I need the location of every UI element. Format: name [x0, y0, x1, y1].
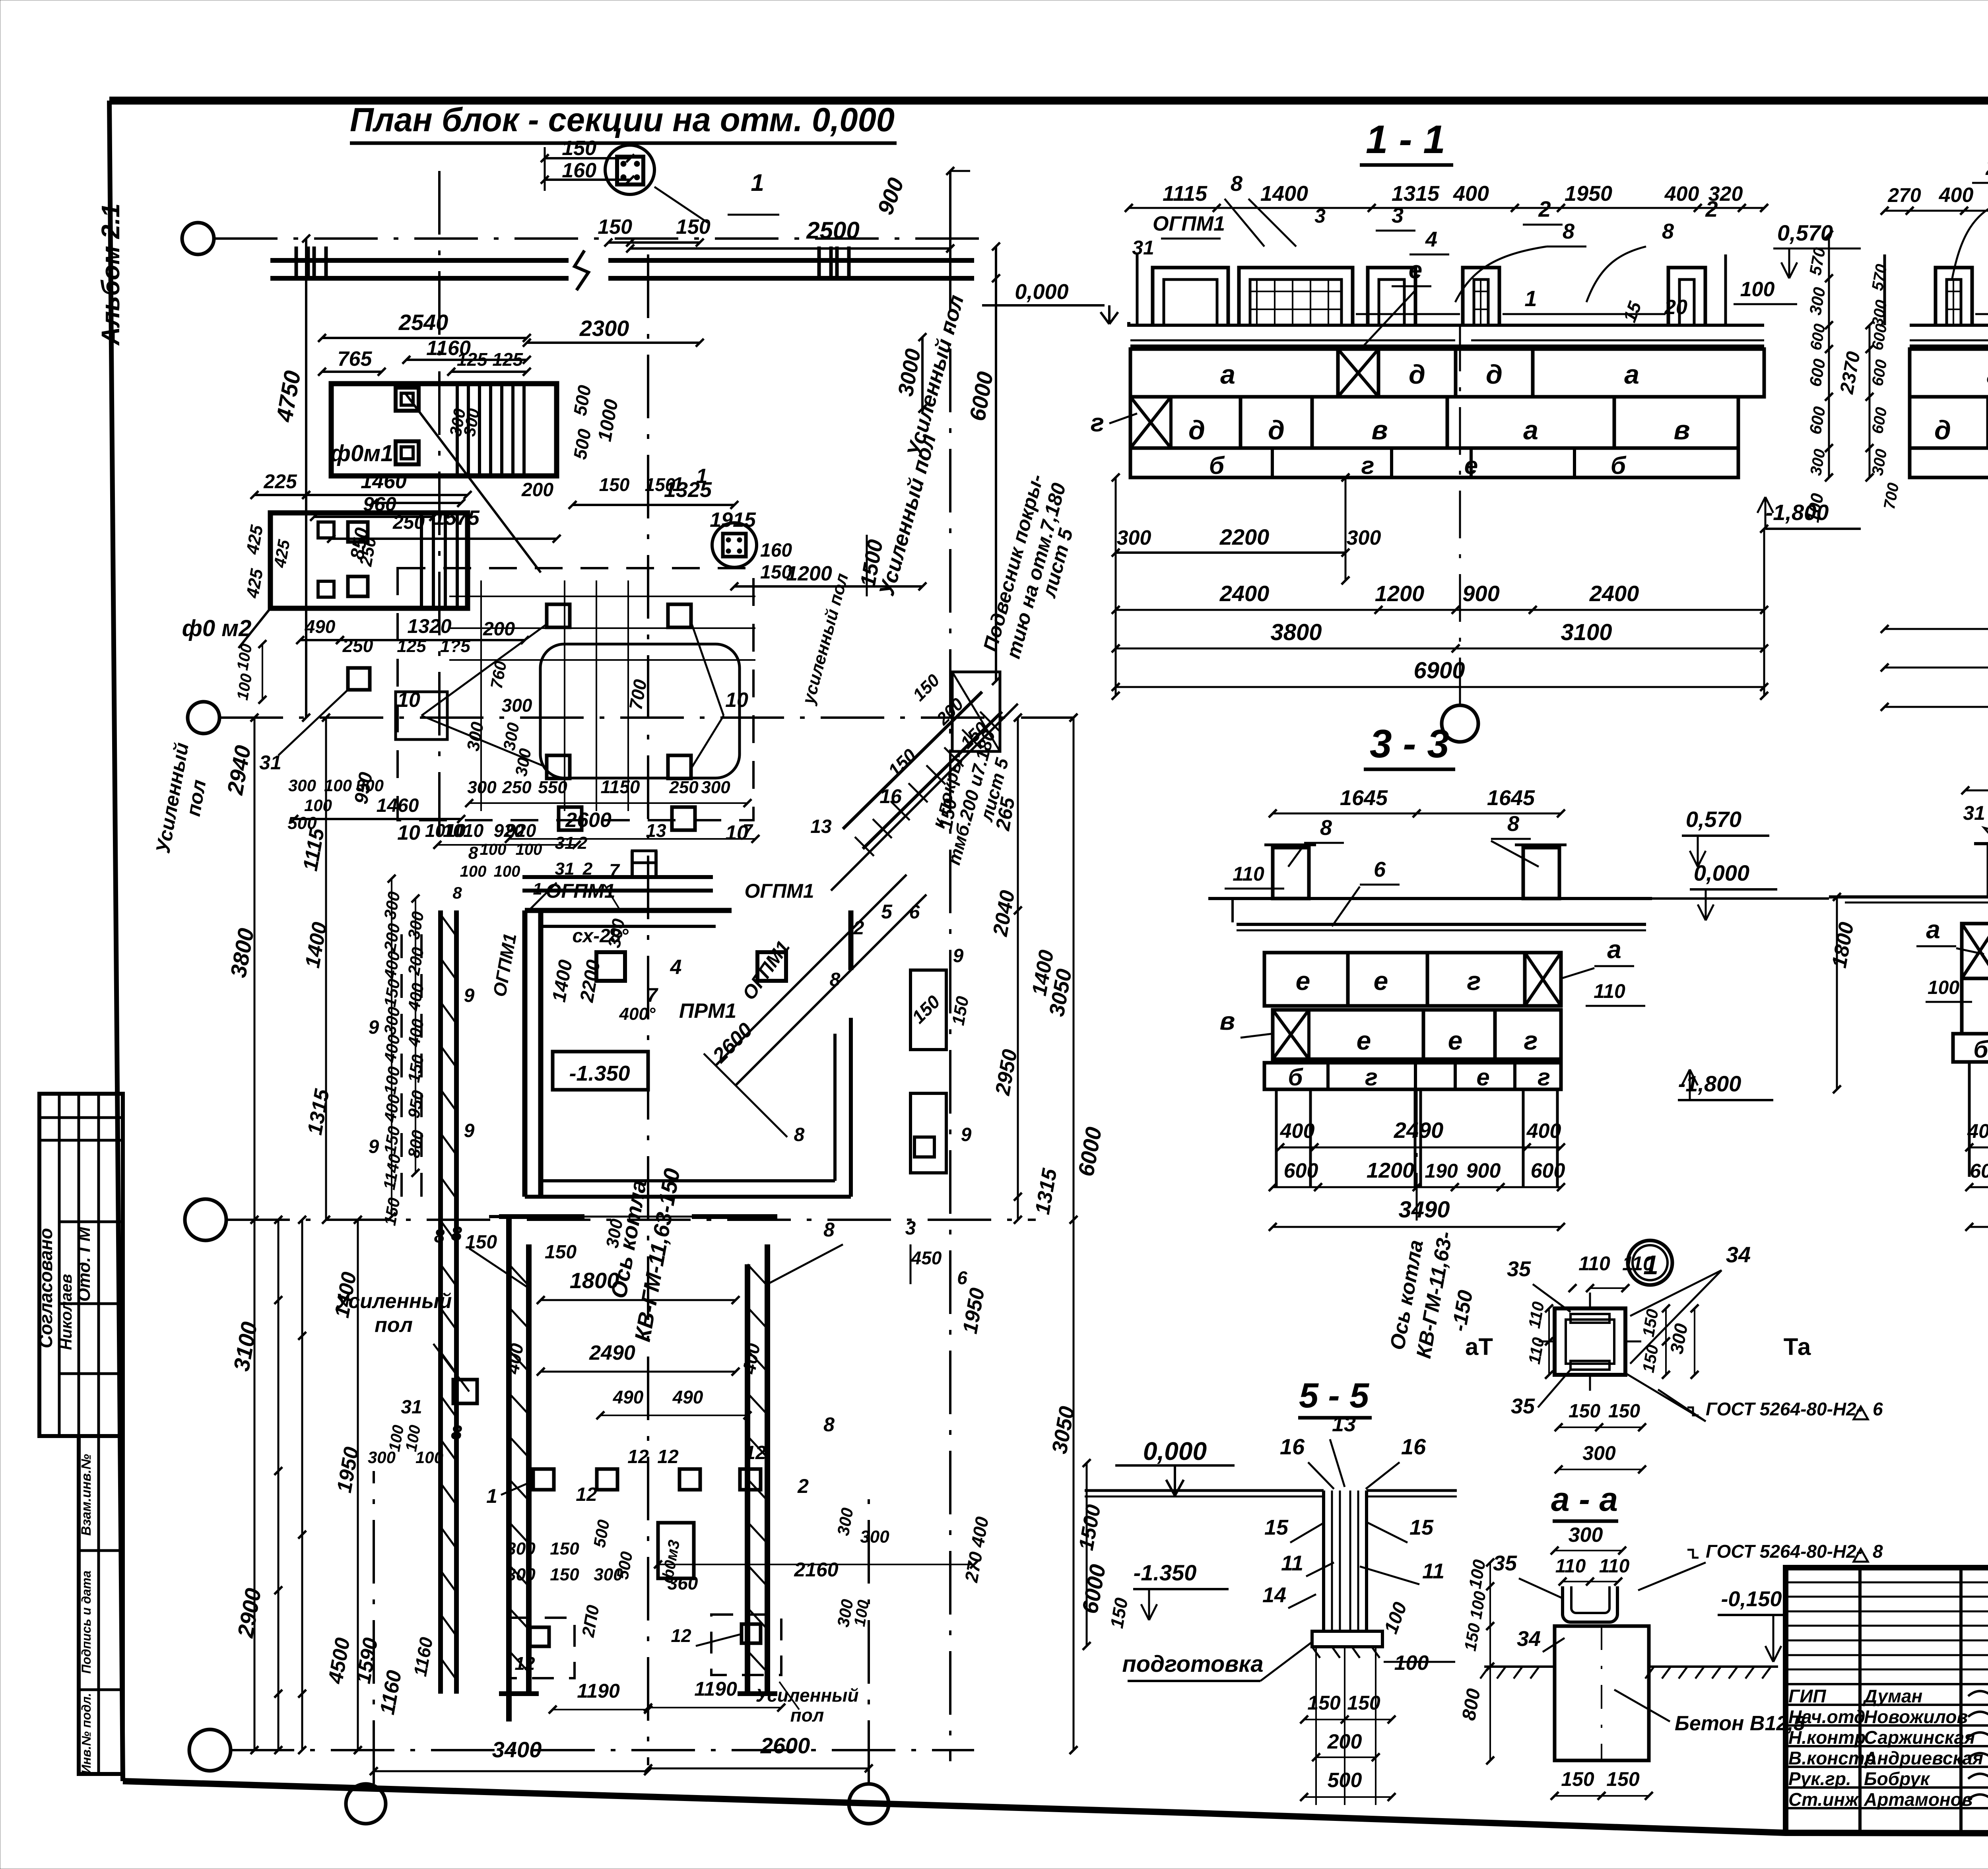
- svg-text:31: 31: [1132, 237, 1154, 259]
- svg-text:300: 300: [502, 695, 532, 716]
- svg-text:490: 490: [305, 616, 336, 637]
- svg-text:400: 400: [1526, 1120, 1561, 1143]
- svg-text:13: 13: [646, 820, 666, 841]
- svg-text:8: 8: [1507, 812, 1519, 836]
- svg-text:35: 35: [1507, 1257, 1531, 1281]
- svg-text:8: 8: [1662, 219, 1674, 243]
- svg-text:13: 13: [1332, 1412, 1356, 1436]
- svg-text:2400: 2400: [1219, 581, 1270, 606]
- svg-text:150: 150: [562, 137, 596, 160]
- svg-text:2: 2: [1538, 196, 1551, 221]
- svg-text:подготовка: подготовка: [1122, 1651, 1263, 1677]
- svg-text:300: 300: [1347, 526, 1381, 549]
- svg-text:д: д: [1188, 415, 1205, 445]
- svg-text:План блок - секции на отм. 0,0: План блок - секции на отм. 0,000: [350, 101, 895, 138]
- svg-text:15: 15: [1409, 1516, 1434, 1539]
- svg-text:б: б: [1209, 452, 1225, 479]
- svg-text:1320: 1320: [407, 615, 451, 637]
- svg-text:в: в: [1220, 1007, 1235, 1035]
- svg-text:е: е: [1464, 452, 1478, 479]
- 2-2 block rows: [1910, 349, 1988, 397]
- svg-text:Андриевская: Андриевская: [1864, 1748, 1983, 1768]
- svg-text:300: 300: [1117, 526, 1151, 549]
- bottom columns row: [533, 1469, 554, 1490]
- svg-text:12: 12: [627, 1446, 649, 1467]
- diagonal element: [843, 692, 982, 829]
- svg-text:1115: 1115: [1163, 182, 1208, 206]
- plan grid circles: [182, 223, 214, 254]
- svg-text:6: 6: [1374, 858, 1386, 881]
- svg-text:600: 600: [1970, 1160, 1988, 1182]
- svg-text:16: 16: [1280, 1434, 1305, 1459]
- svg-text:150: 150: [599, 474, 630, 495]
- svg-text:2400: 2400: [1589, 581, 1639, 606]
- svg-text:аТ: аТ: [1465, 1333, 1493, 1360]
- svg-text:-1.350: -1.350: [569, 1062, 630, 1085]
- svg-text:8: 8: [468, 843, 478, 863]
- svg-text:Н.контр: Н.контр: [1788, 1727, 1866, 1748]
- svg-text:100: 100: [494, 863, 520, 880]
- svg-text:а: а: [1624, 359, 1639, 390]
- svg-text:31: 31: [259, 751, 282, 774]
- svg-text:9: 9: [369, 1017, 379, 1038]
- svg-text:300: 300: [860, 1527, 889, 1547]
- svg-text:12: 12: [745, 1442, 766, 1463]
- svg-text:4: 4: [1425, 227, 1437, 251]
- column detail at title: [605, 145, 654, 194]
- svg-text:3 - 3: 3 - 3: [1370, 722, 1449, 766]
- svg-text:150: 150: [1569, 1401, 1600, 1422]
- svg-text:в: в: [1371, 415, 1388, 445]
- svg-text:900: 900: [1466, 1159, 1501, 1182]
- svg-text:3: 3: [905, 1218, 916, 1239]
- svg-text:0,000: 0,000: [1143, 1437, 1207, 1465]
- svg-text:34: 34: [1517, 1627, 1541, 1651]
- 4-4 dims below: [1968, 1062, 1971, 1177]
- svg-text:360: 360: [668, 1573, 698, 1593]
- svg-text:1: 1: [486, 1485, 497, 1507]
- svg-text:0,000: 0,000: [1694, 860, 1749, 885]
- svg-text:8: 8: [1563, 219, 1574, 243]
- svg-text:1: 1: [533, 879, 542, 898]
- 2-2 pier profile: [1910, 324, 1988, 327]
- svg-text:ОГПМ1: ОГПМ1: [745, 880, 814, 902]
- svg-text:а - а: а - а: [1551, 1481, 1618, 1518]
- svg-text:12: 12: [671, 1625, 691, 1646]
- svg-text:13: 13: [810, 816, 832, 837]
- svg-text:0,570: 0,570: [1686, 807, 1741, 832]
- svg-text:3490: 3490: [1398, 1197, 1450, 1223]
- svg-text:2300: 2300: [579, 316, 629, 341]
- svg-text:Артамонов: Артамонов: [1864, 1789, 1973, 1810]
- left vertical wall with hatch: [438, 910, 443, 1694]
- svg-text:31: 31: [401, 1397, 422, 1418]
- svg-text:1 - 1: 1 - 1: [1366, 117, 1445, 162]
- svg-text:110: 110: [1622, 1252, 1654, 1275]
- svg-text:Усиленный: Усиленный: [755, 1685, 858, 1706]
- svg-text:160: 160: [760, 540, 792, 561]
- svg-text:6: 6: [1873, 1399, 1883, 1419]
- svg-text:400: 400: [1664, 182, 1699, 206]
- svg-text:960: 960: [363, 493, 396, 515]
- svg-text:б: б: [1611, 452, 1627, 479]
- svg-text:д: д: [1409, 359, 1425, 390]
- svg-text:400°: 400°: [619, 1004, 655, 1024]
- svg-text:3100: 3100: [1561, 619, 1612, 645]
- top wall band: [270, 258, 569, 263]
- svg-text:190: 190: [1425, 1160, 1458, 1182]
- svg-text:300: 300: [1582, 1442, 1616, 1464]
- left stamp tables: [39, 1094, 123, 1436]
- svg-text:1645: 1645: [1487, 786, 1535, 810]
- svg-text:е: е: [1357, 1026, 1371, 1055]
- svg-text:3400: 3400: [492, 1737, 542, 1762]
- svg-text:б: б: [1288, 1064, 1303, 1091]
- drawing frame: [109, 97, 1988, 105]
- svg-text:1: 1: [672, 473, 683, 495]
- svg-text:ГОСТ 5264-80-Н2-: ГОСТ 5264-80-Н2-: [1706, 1541, 1862, 1562]
- svg-text:Николаев: Николаев: [58, 1274, 75, 1350]
- svg-text:4: 4: [670, 956, 682, 979]
- svg-text:300: 300: [288, 776, 316, 795]
- svg-text:600: 600: [1531, 1159, 1565, 1182]
- svg-text:-0,150: -0,150: [1721, 1587, 1782, 1611]
- svg-text:1325: 1325: [664, 478, 712, 502]
- svg-text:16: 16: [1401, 1434, 1426, 1459]
- svg-text:Отд. ГМ: Отд. ГМ: [74, 1227, 94, 1302]
- 3-3 blocks: [1264, 953, 1561, 1006]
- svg-text:100: 100: [1394, 1652, 1429, 1675]
- svg-text:270: 270: [1887, 184, 1921, 206]
- svg-text:31: 31: [555, 833, 575, 853]
- svg-text:3: 3: [1392, 204, 1404, 227]
- svg-text:3: 3: [1314, 205, 1326, 227]
- svg-text:20: 20: [1664, 296, 1687, 319]
- svg-text:14: 14: [1262, 1583, 1286, 1607]
- svg-text:11: 11: [1422, 1559, 1444, 1583]
- svg-text:8: 8: [823, 1413, 835, 1436]
- svg-text:Саржинская: Саржинская: [1864, 1727, 1975, 1748]
- mid room upper band: [522, 875, 713, 879]
- svg-text:Альбом 2.1: Альбом 2.1: [96, 204, 125, 346]
- svg-text:300: 300: [506, 1539, 536, 1558]
- svg-text:300: 300: [356, 776, 384, 795]
- svg-text:0,000: 0,000: [1015, 280, 1068, 304]
- svg-text:8: 8: [823, 1219, 835, 1241]
- svg-text:1200: 1200: [1375, 581, 1425, 606]
- svg-text:490: 490: [613, 1387, 644, 1407]
- svg-text:7: 7: [646, 984, 658, 1006]
- svg-text:8: 8: [1320, 816, 1332, 840]
- svg-text:Взам.инв.№: Взам.инв.№: [79, 1454, 94, 1536]
- vertical dim chains left: [305, 239, 307, 718]
- svg-text:1150: 1150: [601, 776, 640, 797]
- svg-text:200: 200: [521, 479, 553, 501]
- svg-text:1010: 1010: [443, 820, 484, 841]
- svg-text:300: 300: [368, 1448, 396, 1467]
- svg-text:1400: 1400: [1260, 182, 1308, 206]
- svg-text:Рук.гр.: Рук.гр.: [1788, 1768, 1851, 1789]
- svg-text:400: 400: [1280, 1120, 1315, 1143]
- node mark 1: [1628, 1240, 1672, 1285]
- svg-text:490: 490: [672, 1387, 703, 1407]
- svg-text:31: 31: [555, 859, 575, 879]
- svg-text:д: д: [1934, 415, 1951, 445]
- svg-text:5: 5: [881, 901, 893, 923]
- svg-text:ф0м1: ф0м1: [330, 441, 394, 466]
- svg-text:300: 300: [467, 778, 497, 797]
- svg-text:150: 150: [598, 215, 632, 239]
- svg-text:12: 12: [657, 1446, 679, 1467]
- dashed footings: [508, 1618, 575, 1678]
- svg-text:г: г: [1365, 1064, 1378, 1091]
- svg-text:6: 6: [957, 1267, 967, 1288]
- svg-text:5 - 5: 5 - 5: [1299, 1376, 1369, 1415]
- svg-text:100: 100: [460, 863, 487, 880]
- svg-text:450: 450: [911, 1248, 942, 1268]
- svg-text:г: г: [1091, 408, 1104, 437]
- svg-text:150: 150: [545, 1242, 577, 1263]
- svg-text:Подпись и дата: Подпись и дата: [79, 1570, 93, 1673]
- svg-text:2600: 2600: [565, 809, 612, 832]
- svg-text:а: а: [1523, 415, 1538, 445]
- svg-text:0,570: 0,570: [1777, 220, 1833, 245]
- node 1 detail: [1555, 1308, 1625, 1375]
- svg-text:10: 10: [397, 821, 420, 844]
- svg-text:ф0 м2: ф0 м2: [182, 615, 252, 641]
- svg-text:д: д: [1268, 415, 1285, 445]
- 2-2 dim chains: [1885, 628, 1988, 630]
- svg-text:2600: 2600: [760, 1733, 810, 1758]
- svg-text:8: 8: [1231, 172, 1242, 196]
- svg-text:150: 150: [1606, 1768, 1640, 1790]
- axis circle mid plan: [712, 523, 757, 567]
- svg-text:7: 7: [609, 860, 620, 881]
- svg-text:г: г: [1361, 452, 1374, 479]
- 1-1 block rows: [1130, 349, 1764, 397]
- svg-text:250: 250: [342, 635, 373, 656]
- svg-text:9: 9: [464, 1120, 475, 1141]
- svg-text:Согласовано: Согласовано: [35, 1228, 56, 1348]
- svg-text:31: 31: [1963, 802, 1985, 824]
- svg-text:-1.350: -1.350: [1134, 1560, 1197, 1585]
- svg-text:250: 250: [502, 778, 532, 797]
- svg-text:8: 8: [794, 1124, 805, 1145]
- svg-text:пол: пол: [790, 1705, 824, 1725]
- svg-text:ГИП: ГИП: [1788, 1686, 1826, 1706]
- svg-text:а: а: [1926, 915, 1940, 944]
- svg-text:ГОСТ 5264-80-Н2-: ГОСТ 5264-80-Н2-: [1706, 1399, 1862, 1419]
- svg-text:Та: Та: [1784, 1333, 1811, 1360]
- svg-text:150: 150: [1608, 1401, 1640, 1422]
- plan grid lines: [214, 237, 986, 240]
- svg-text:150: 150: [676, 215, 711, 239]
- svg-text:В.констр: В.констр: [1788, 1748, 1876, 1768]
- svg-text:10: 10: [725, 689, 748, 712]
- svg-text:1190: 1190: [694, 1678, 737, 1700]
- svg-text:100: 100: [480, 841, 507, 858]
- 1-1 pier profile: [1129, 322, 1764, 325]
- svg-text:2: 2: [1705, 196, 1718, 221]
- svg-text:9: 9: [961, 1124, 972, 1145]
- svg-text:г: г: [1524, 1026, 1538, 1055]
- svg-text:2: 2: [1985, 155, 1988, 180]
- svg-text:ПРМ1: ПРМ1: [679, 1000, 736, 1023]
- svg-text:6: 6: [909, 902, 920, 923]
- svg-text:2: 2: [853, 918, 864, 939]
- svg-text:в: в: [1673, 415, 1690, 445]
- svg-text:110: 110: [1233, 863, 1264, 885]
- svg-text:9: 9: [464, 985, 475, 1006]
- FOm1: [331, 384, 557, 476]
- svg-text:е: е: [1409, 256, 1422, 284]
- svg-text:12: 12: [514, 1653, 535, 1674]
- svg-text:125 125: 125 125: [457, 349, 524, 370]
- svg-text:1200: 1200: [786, 562, 832, 585]
- svg-text:100: 100: [1928, 977, 1959, 998]
- svg-text:2: 2: [797, 1475, 809, 1497]
- equipment dashed zone: [396, 692, 447, 739]
- svg-text:100: 100: [324, 776, 352, 795]
- svg-text:400: 400: [1453, 182, 1489, 206]
- svg-text:а: а: [1220, 359, 1235, 390]
- svg-text:400: 400: [1967, 1120, 1988, 1142]
- svg-text:110: 110: [1599, 1556, 1630, 1577]
- svg-text:1460: 1460: [361, 470, 407, 493]
- svg-text:б: б: [1973, 1036, 1988, 1063]
- svg-text:8: 8: [452, 883, 462, 902]
- svg-text:2200: 2200: [1219, 524, 1270, 549]
- svg-text:а: а: [1607, 935, 1621, 964]
- svg-text:34: 34: [1726, 1242, 1751, 1267]
- svg-text:Нач.отд: Нач.отд: [1788, 1706, 1865, 1727]
- svg-text:400: 400: [1939, 184, 1974, 207]
- svg-text:2490: 2490: [589, 1341, 635, 1364]
- svg-text:15: 15: [1264, 1516, 1289, 1539]
- right side chain ticks: [1014, 714, 1022, 722]
- svg-text:е: е: [1296, 966, 1310, 996]
- svg-text:300: 300: [701, 778, 730, 797]
- svg-text:10: 10: [397, 689, 420, 712]
- FOm2: [270, 513, 468, 608]
- svg-text:2: 2: [582, 859, 593, 879]
- title block: [1786, 1568, 1988, 1833]
- svg-text:900: 900: [1462, 581, 1499, 606]
- svg-text:300: 300: [1569, 1524, 1603, 1547]
- svg-text:1315: 1315: [1392, 182, 1440, 206]
- svg-text:д: д: [1486, 359, 1503, 390]
- svg-text:Ст.инж: Ст.инж: [1788, 1789, 1859, 1810]
- svg-text:е: е: [1448, 1026, 1463, 1055]
- svg-text:35: 35: [1493, 1551, 1517, 1575]
- svg-text:150: 150: [1561, 1768, 1594, 1790]
- svg-text:2540: 2540: [398, 310, 448, 335]
- svg-text:200: 200: [483, 619, 515, 640]
- svg-text:9: 9: [953, 945, 964, 967]
- mid room walls: [522, 910, 528, 1197]
- svg-text:100: 100: [304, 796, 332, 815]
- boiler walls: [506, 1217, 512, 1721]
- svg-text:35: 35: [1511, 1394, 1535, 1418]
- svg-text:8: 8: [1873, 1541, 1883, 1562]
- svg-text:12: 12: [576, 1484, 597, 1505]
- svg-text:9: 9: [369, 1136, 379, 1157]
- right side vertical dims of plan: [921, 337, 924, 409]
- svg-text:1190: 1190: [577, 1680, 620, 1702]
- svg-text:225: 225: [263, 470, 297, 493]
- svg-text:1645: 1645: [1340, 786, 1388, 810]
- svg-text:Думан: Думан: [1862, 1686, 1922, 1706]
- svg-text:250: 250: [669, 778, 699, 797]
- svg-text:3800: 3800: [1270, 619, 1322, 645]
- svg-text:110: 110: [1555, 1556, 1586, 1577]
- svg-text:110: 110: [1578, 1252, 1610, 1275]
- svg-text:1950: 1950: [1565, 182, 1612, 206]
- svg-text:600: 600: [1284, 1159, 1318, 1182]
- svg-text:1: 1: [751, 169, 764, 196]
- 1-1 dim chains: [1115, 477, 1117, 696]
- svg-text:ОГПМ1: ОГПМ1: [1153, 212, 1225, 235]
- svg-text:1: 1: [1524, 286, 1537, 311]
- svg-text:765: 765: [338, 347, 373, 371]
- svg-text:г: г: [1467, 966, 1481, 996]
- svg-text:1200: 1200: [1367, 1159, 1414, 1182]
- svg-text:Инв.№ подл.: Инв.№ подл.: [79, 1693, 93, 1774]
- svg-text:г: г: [1538, 1064, 1550, 1091]
- svg-text:11: 11: [1281, 1551, 1303, 1575]
- svg-text:16: 16: [879, 785, 902, 807]
- svg-text:е: е: [1374, 966, 1388, 996]
- svg-text:100: 100: [516, 841, 542, 858]
- svg-text:550: 550: [538, 778, 567, 797]
- 4-4 blocks: [1962, 924, 1988, 978]
- svg-text:300: 300: [506, 1565, 536, 1584]
- svg-text:150: 150: [550, 1539, 579, 1558]
- svg-text:110: 110: [1594, 980, 1625, 1002]
- svg-text:2160: 2160: [794, 1558, 838, 1581]
- svg-text:пол: пол: [375, 1314, 413, 1337]
- svg-text:6900: 6900: [1413, 658, 1465, 683]
- svg-text:Усиленный: Усиленный: [336, 1290, 452, 1313]
- svg-text:7: 7: [742, 820, 753, 841]
- svg-text:150: 150: [550, 1565, 579, 1584]
- svg-text:100: 100: [1740, 278, 1775, 301]
- svg-text:150: 150: [1307, 1692, 1341, 1714]
- svg-text:Бобрук: Бобрук: [1864, 1768, 1931, 1789]
- svg-text:Новожилов: Новожилов: [1864, 1706, 1968, 1727]
- svg-text:2490: 2490: [1394, 1118, 1444, 1143]
- svg-text:920: 920: [506, 820, 536, 841]
- svg-text:е: е: [1476, 1064, 1489, 1091]
- svg-text:500: 500: [287, 813, 317, 833]
